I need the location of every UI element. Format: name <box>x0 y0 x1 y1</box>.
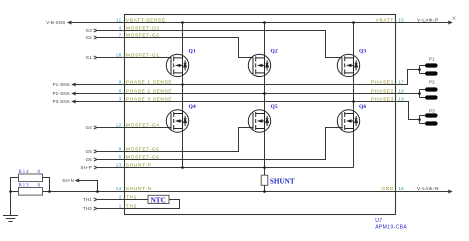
transistor Q1 <box>166 54 188 76</box>
junction phase 3 <box>352 100 355 103</box>
svg-text:Q2: Q2 <box>271 48 278 54</box>
svg-text:V-B-SNS: V-B-SNS <box>46 20 65 25</box>
transistor Q3 <box>337 54 359 76</box>
wire shunt bottom lead <box>264 185 266 191</box>
junction Q2 drain <box>263 21 266 24</box>
svg-text:9: 9 <box>119 80 122 85</box>
svg-text:G3: G3 <box>86 28 93 33</box>
svg-text:G5: G5 <box>86 149 93 154</box>
wire SH-N tap <box>76 181 98 192</box>
wire PHASE 3 row <box>72 101 395 103</box>
port G5 <box>94 150 97 153</box>
svg-text:PHASE 1 SENSE: PHASE 1 SENSE <box>126 80 173 86</box>
svg-text:12: 12 <box>116 123 122 128</box>
svg-text:PHASE3: PHASE3 <box>371 97 394 103</box>
svg-text:0: 0 <box>38 183 41 189</box>
svg-text:4: 4 <box>119 26 122 31</box>
svg-text:TH1: TH1 <box>83 197 92 202</box>
wire PHASE 1 row <box>72 84 395 86</box>
svg-text:PHASE1: PHASE1 <box>371 80 394 86</box>
resistor SHUNT <box>261 175 268 185</box>
port V-B-SNS <box>68 21 71 24</box>
junction shunt-GND <box>263 190 266 193</box>
port mark <box>453 17 456 20</box>
svg-text:18: 18 <box>398 89 404 94</box>
net V-Link-N <box>448 190 451 193</box>
port P1-SNS <box>72 83 75 86</box>
svg-text:P1-SNS: P1-SNS <box>53 82 70 87</box>
svg-text:G1: G1 <box>86 55 93 60</box>
wire Q5 source down to shunt <box>264 132 266 176</box>
svg-text:PHASE 3 SENSE: PHASE 3 SENSE <box>126 97 173 103</box>
port SH-N <box>76 179 79 182</box>
svg-text:16: 16 <box>398 186 404 191</box>
svg-text:5: 5 <box>119 155 122 160</box>
wire SHUNT-N / GND rail <box>11 191 452 193</box>
svg-text:19: 19 <box>398 97 404 102</box>
wire Q3 source to Q6 drain <box>353 77 355 110</box>
svg-text:1: 1 <box>119 203 122 208</box>
wire Q2 source to Q5 drain <box>264 77 266 110</box>
wire G1 net to Q1 gate <box>98 57 172 59</box>
svg-text:15: 15 <box>398 18 404 23</box>
svg-text:MOSFET-G5: MOSFET-G5 <box>126 147 160 153</box>
transistor Q5 <box>248 110 270 132</box>
svg-text:V-Link-P: V-Link-P <box>417 18 439 23</box>
svg-text:SH-N: SH-N <box>62 178 74 183</box>
wire Q2 drain <box>264 23 266 55</box>
port G3 <box>94 29 97 32</box>
svg-text:MOSFET-G2: MOSFET-G2 <box>126 33 160 39</box>
svg-text:11: 11 <box>116 18 122 23</box>
resistor R14 <box>19 174 43 182</box>
port G2 <box>94 36 97 39</box>
wire PHASE 2 row <box>72 93 395 95</box>
wire G4 net to Q4 gate <box>98 127 172 129</box>
junction Q5 source <box>263 166 266 169</box>
svg-text:8: 8 <box>119 147 122 152</box>
svg-text:PHASE 2 SENSE: PHASE 2 SENSE <box>126 89 173 95</box>
wire VBATT-SENSE / VBATT top rail <box>68 22 451 24</box>
junction SH-N tap <box>96 190 99 193</box>
wire TH1 row <box>98 199 149 201</box>
svg-text:17: 17 <box>398 80 404 85</box>
svg-text:G2: G2 <box>86 35 93 40</box>
svg-text:Q5: Q5 <box>271 104 278 110</box>
port G4 <box>94 126 97 129</box>
svg-text:13: 13 <box>116 163 122 168</box>
wire G5 net to Q5 gate <box>98 128 254 152</box>
svg-text:6: 6 <box>119 89 122 94</box>
port P3-SNS <box>72 100 75 103</box>
svg-text:P1: P1 <box>429 57 435 62</box>
svg-text:MOSFET-G3: MOSFET-G3 <box>126 26 160 32</box>
svg-text:VBATT-SENSE: VBATT-SENSE <box>126 18 166 24</box>
wire R14 leads <box>11 178 50 192</box>
svg-text:P3: P3 <box>429 109 435 114</box>
svg-text:P2-SNS: P2-SNS <box>53 91 70 96</box>
port G1 <box>94 56 97 59</box>
junction Q4 source <box>181 166 184 169</box>
svg-text:14: 14 <box>116 186 122 191</box>
svg-text:7: 7 <box>119 33 122 38</box>
wire G3 net to Q3 gate <box>98 31 343 58</box>
junction resistors right <box>48 190 51 193</box>
svg-text:TH2: TH2 <box>83 206 92 211</box>
svg-text:Q3: Q3 <box>359 48 366 54</box>
svg-text:Q1: Q1 <box>189 48 196 54</box>
svg-text:Q6: Q6 <box>359 104 366 110</box>
port P2-SNS <box>72 92 75 95</box>
svg-text:SHUNT-N: SHUNT-N <box>126 186 152 192</box>
svg-text:P3-SNS: P3-SNS <box>53 99 70 104</box>
wire Q1 source to Q4 drain <box>182 77 184 110</box>
wire SHUNT-P rail <box>98 167 354 169</box>
svg-text:18: 18 <box>116 53 122 58</box>
svg-text:3: 3 <box>119 97 122 102</box>
wire Q1 drain <box>182 23 184 55</box>
svg-text:SHUNT: SHUNT <box>270 178 295 186</box>
junction resistors left <box>9 190 12 193</box>
wire Q6 source <box>353 132 355 167</box>
svg-text:Q4: Q4 <box>189 104 196 110</box>
transistor Q6 <box>337 110 359 132</box>
svg-text:VBATT: VBATT <box>376 18 394 24</box>
wire TH2 row and NTC loop <box>98 200 180 209</box>
svg-text:TH1: TH1 <box>126 194 137 200</box>
resistor R13 <box>19 188 43 196</box>
svg-text:P2: P2 <box>429 80 435 85</box>
junction phase 2 <box>263 92 266 95</box>
svg-text:0: 0 <box>38 169 41 175</box>
port G6 <box>94 158 97 161</box>
svg-text:2: 2 <box>119 194 122 199</box>
svg-text:APM19-CBA: APM19-CBA <box>375 225 407 231</box>
port SH-P <box>94 166 97 169</box>
wire G2 net to Q2 gate <box>98 38 254 58</box>
svg-text:R14: R14 <box>19 169 30 175</box>
wire G6 net to Q6 gate <box>98 128 343 160</box>
svg-text:PHASE2: PHASE2 <box>371 89 394 95</box>
net V-Link-P <box>448 21 451 24</box>
transistor Q4 <box>166 110 188 132</box>
op-amp module U7 body outline <box>125 15 396 215</box>
svg-text:SHUNT-P: SHUNT-P <box>126 163 152 169</box>
svg-text:GND: GND <box>381 186 394 192</box>
svg-text:MOSFET-G4: MOSFET-G4 <box>126 123 160 129</box>
svg-text:TH2: TH2 <box>126 203 137 209</box>
svg-text:R13: R13 <box>19 183 30 189</box>
wire Q3 drain <box>353 23 355 55</box>
svg-text:V-Link-N: V-Link-N <box>417 186 439 191</box>
svg-text:G4: G4 <box>86 125 93 130</box>
svg-text:U7: U7 <box>375 218 382 224</box>
port TH1 <box>94 198 97 201</box>
junction Q1 drain <box>181 21 184 24</box>
ground <box>3 192 18 222</box>
svg-text:NTC: NTC <box>151 196 166 204</box>
junction phase 1 <box>181 83 184 86</box>
thermistor NTC <box>148 195 169 203</box>
svg-text:G6: G6 <box>86 157 93 162</box>
svg-text:MOSFET-G6: MOSFET-G6 <box>126 155 160 161</box>
transistor Q2 <box>248 54 270 76</box>
junction Q3 drain <box>352 21 355 24</box>
svg-text:SH-P: SH-P <box>81 165 93 170</box>
port TH2 <box>94 207 97 210</box>
svg-text:MOSFET-G1: MOSFET-G1 <box>126 53 160 59</box>
wire Q4 source <box>182 132 184 167</box>
